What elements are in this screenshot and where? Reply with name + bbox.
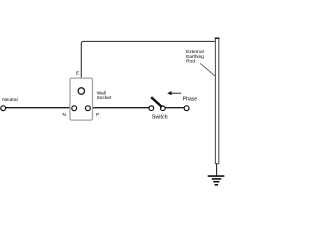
svg-text:Socket: Socket bbox=[97, 95, 112, 101]
svg-text:Switch: Switch bbox=[152, 115, 168, 121]
svg-text:Phase: Phase bbox=[183, 96, 198, 102]
svg-text:P: P bbox=[96, 112, 99, 118]
svg-text:N: N bbox=[63, 112, 67, 118]
svg-text:E: E bbox=[76, 70, 79, 76]
svg-text:Neutral: Neutral bbox=[2, 97, 17, 103]
svg-text:Rod: Rod bbox=[186, 59, 195, 65]
